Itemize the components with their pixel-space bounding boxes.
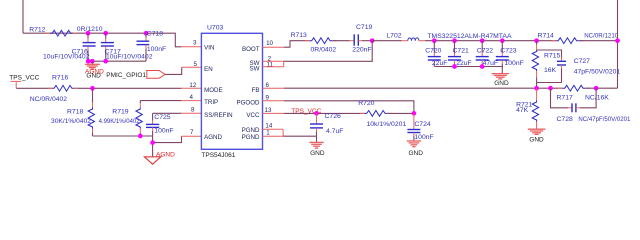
wire: L702 net xyxy=(372,40,401,42)
capacitor C721 xyxy=(454,41,456,53)
svg-text:R713: R713 xyxy=(291,32,307,39)
svg-text:TPS54J061: TPS54J061 xyxy=(201,152,235,159)
svg-text:AGND: AGND xyxy=(156,151,175,158)
svg-text:GND: GND xyxy=(494,80,509,87)
node: SW/boot junction xyxy=(370,38,375,43)
wire: output cap ground rail xyxy=(434,66,502,68)
svg-text:GND: GND xyxy=(529,136,544,143)
svg-text:47K: 47K xyxy=(516,107,529,114)
capacitor C723 xyxy=(501,41,503,53)
pin stub EN pin 5 xyxy=(182,66,202,68)
wire: R714 to output sense column xyxy=(579,40,618,42)
svg-text:R712: R712 xyxy=(29,27,45,34)
node: VIN rail junction C717 xyxy=(103,31,108,36)
svg-text:3: 3 xyxy=(193,40,197,47)
pin stub MODE pin 12 xyxy=(181,87,201,89)
svg-text:SS/REFIN: SS/REFIN xyxy=(204,112,233,119)
svg-text:R715: R715 xyxy=(544,52,560,59)
pin stub FB pin 6 xyxy=(263,87,284,89)
svg-text:10k/1%/0201: 10k/1%/0201 xyxy=(367,121,407,128)
svg-text:10uF/10V/0402: 10uF/10V/0402 xyxy=(43,54,90,61)
svg-text:GND: GND xyxy=(310,150,325,157)
node: MODE net / R718 junction xyxy=(90,86,95,91)
wire: VOUT rail xyxy=(425,40,556,42)
node: gnd rail at C717 xyxy=(103,59,108,64)
node: VOUT rail C723 xyxy=(500,38,505,43)
svg-text:NC/0R/1210: NC/0R/1210 xyxy=(584,33,618,40)
pin stub PGND pin 14 xyxy=(263,128,284,130)
svg-text:R720: R720 xyxy=(358,100,374,107)
node: gnd rail at AGND drop xyxy=(90,59,95,64)
svg-text:100nF: 100nF xyxy=(414,134,433,141)
pin stub BOOT pin 10 xyxy=(263,46,284,48)
svg-text:C720: C720 xyxy=(425,47,441,54)
node: PGOOD/R720/C724 xyxy=(412,111,417,116)
svg-text:C724: C724 xyxy=(414,121,430,128)
svg-text:EN: EN xyxy=(204,66,213,73)
svg-text:0R/0402: 0R/0402 xyxy=(311,47,337,54)
wire: C719 to SW node xyxy=(362,40,372,42)
capacitor C718 xyxy=(145,33,147,37)
wire: TPS_VCC to MODE pin 12 xyxy=(16,87,52,89)
svg-text:BOOT: BOOT xyxy=(242,46,260,53)
svg-text:GND: GND xyxy=(86,73,101,80)
node: VOUT rail R715 xyxy=(534,38,539,43)
svg-text:220nF: 220nF xyxy=(352,47,371,54)
pin stub TRIP pin 4 xyxy=(181,100,201,102)
svg-text:TPS_VCC: TPS_VCC xyxy=(9,74,39,81)
svg-text:R714: R714 xyxy=(538,33,554,40)
svg-text:FB: FB xyxy=(252,87,260,94)
capacitor C717 xyxy=(105,33,107,38)
svg-text:C726: C726 xyxy=(325,113,341,120)
svg-text:C718: C718 xyxy=(147,30,163,37)
svg-text:R716: R716 xyxy=(52,75,68,82)
wire: VCC net xyxy=(284,112,365,114)
svg-text:VIN: VIN xyxy=(204,45,214,52)
resistor R718 xyxy=(92,88,94,102)
svg-text:8: 8 xyxy=(191,106,195,113)
capacitor C722 xyxy=(481,41,483,53)
node: gnd rail C722 xyxy=(480,64,485,69)
node: VCC at C726 xyxy=(314,111,319,116)
capacitor C726 xyxy=(316,113,318,124)
wire: SW pins join xyxy=(283,61,285,67)
node: FB at C728 branch xyxy=(548,86,553,91)
svg-text:10: 10 xyxy=(266,40,273,47)
wire: R715/C727 bottom join xyxy=(537,83,562,89)
wire: R720 to PGOOD node xyxy=(387,112,414,114)
node: VIN rail junction C718 xyxy=(144,31,149,36)
node: gnd rail at C716 xyxy=(86,59,91,64)
svg-text:SW: SW xyxy=(250,66,260,73)
svg-text:7: 7 xyxy=(190,129,194,136)
wire: SW net run xyxy=(284,41,373,62)
wire: PGND pins join xyxy=(282,129,284,136)
svg-text:47pF/50V/0201: 47pF/50V/0201 xyxy=(574,69,621,76)
wire: R713 to C719 xyxy=(332,40,349,42)
svg-text:PGOOD: PGOOD xyxy=(236,99,260,106)
svg-text:L702: L702 xyxy=(386,33,401,40)
svg-text:4.99K/1%/0402: 4.99K/1%/0402 xyxy=(99,118,140,125)
resistor R717 xyxy=(563,85,586,91)
resistor R721 xyxy=(536,88,538,100)
svg-text:4.7uF: 4.7uF xyxy=(326,128,343,135)
svg-text:GND: GND xyxy=(409,150,424,157)
svg-text:NC/16K: NC/16K xyxy=(585,95,609,102)
svg-text:14: 14 xyxy=(265,123,272,130)
capacitor C716 xyxy=(87,33,89,38)
node: FB at right vertical xyxy=(594,86,599,91)
svg-text:5: 5 xyxy=(194,61,198,68)
node: AGND net at C725 column xyxy=(150,140,155,145)
node: VOUT rail C720 xyxy=(432,38,437,43)
pin stub AGND pin 7 xyxy=(182,135,202,137)
pin stub PGND pin 1 xyxy=(263,135,284,137)
pin stub VCC pin 13 xyxy=(263,112,284,114)
svg-text:TMS322512ALM-R47MTAA: TMS322512ALM-R47MTAA xyxy=(427,33,512,40)
node: VOUT rail C722 xyxy=(480,38,485,43)
node: gnd rail C721 xyxy=(452,64,457,69)
capacitor C720 xyxy=(433,41,435,53)
pin stub VIN pin 3 xyxy=(181,46,201,48)
svg-text:U703: U703 xyxy=(207,25,223,32)
node: bottom rail R719 xyxy=(138,134,143,139)
resistor R712 xyxy=(50,30,73,36)
ground GND (output caps) xyxy=(501,67,503,74)
pin stub SW pin 11 xyxy=(263,66,284,68)
pin stub SW pin 2 xyxy=(263,60,284,62)
svg-text:R717: R717 xyxy=(557,95,573,102)
svg-text:C721: C721 xyxy=(453,47,469,54)
resistor R714 xyxy=(556,38,579,44)
wire: EN pin 5 net xyxy=(165,67,182,74)
pin stub SS/REFIN pin 8 xyxy=(181,112,201,114)
capacitor C724 xyxy=(413,113,415,129)
svg-text:C725: C725 xyxy=(154,114,170,121)
svg-text:C727: C727 xyxy=(574,58,590,65)
svg-text:100nF: 100nF xyxy=(505,60,524,67)
wire: PGOOD net xyxy=(284,101,414,114)
ground GND (C726/PGND) xyxy=(309,141,323,143)
svg-text:R718: R718 xyxy=(67,109,83,116)
svg-text:100nF: 100nF xyxy=(154,128,173,135)
pin stub PGOOD pin 9 xyxy=(263,100,284,102)
wire: BOOT net xyxy=(284,41,310,48)
resistor R716 xyxy=(53,85,74,91)
inductor L702 xyxy=(402,40,408,42)
node: VOUT rail C721 xyxy=(452,38,457,43)
svg-text:16K: 16K xyxy=(544,67,557,74)
op-amp U703 (IC TPS54J061 box) xyxy=(201,33,262,149)
resistor R715 xyxy=(536,41,538,45)
svg-text:C723: C723 xyxy=(500,47,516,54)
svg-text:PMIC_GPIO1: PMIC_GPIO1 xyxy=(106,72,146,79)
capacitor C719 xyxy=(350,40,355,42)
svg-text:12: 12 xyxy=(189,82,196,89)
wire: AGND pin 7 net xyxy=(153,136,182,142)
wire: FB net xyxy=(284,87,563,89)
svg-text:4: 4 xyxy=(190,94,194,101)
wire: vertical off-page output xyxy=(617,0,619,88)
svg-text:C719: C719 xyxy=(356,24,372,31)
svg-text:MODE: MODE xyxy=(204,87,223,94)
svg-text:NC/47pF/50V/0201: NC/47pF/50V/0201 xyxy=(578,116,630,123)
wire: top-left VIN feed vertical xyxy=(22,0,24,33)
ground AGND (triangle) xyxy=(144,157,160,164)
wire: PGND to C726 gnd xyxy=(283,135,316,137)
resistor R713 xyxy=(310,38,333,44)
capacitor C725 xyxy=(152,113,154,121)
svg-text:TRIP: TRIP xyxy=(204,99,218,106)
svg-text:NC/0R/0402: NC/0R/0402 xyxy=(30,96,68,103)
node: output column junction xyxy=(615,38,620,43)
wire: input cap ground rail xyxy=(88,60,146,62)
wire: SS/REFIN pin 8 net xyxy=(153,112,182,114)
resistor R719 xyxy=(139,101,141,103)
wire: divider bottom rail xyxy=(93,135,153,137)
node: VIN rail junction C716 xyxy=(86,31,91,36)
svg-text:PGND: PGND xyxy=(242,134,260,141)
wire: TRIP pin 4 net xyxy=(140,100,181,102)
ground GND (R721) xyxy=(528,128,546,130)
wire: R717 to output column xyxy=(585,87,617,89)
ground AGND/GND (input caps) xyxy=(91,61,93,64)
ground GND (C724) xyxy=(407,140,421,142)
svg-text:C722: C722 xyxy=(477,47,493,54)
resistor R720 xyxy=(365,111,388,117)
svg-text:1: 1 xyxy=(266,130,270,137)
svg-text:R719: R719 xyxy=(112,109,128,116)
svg-text:AGND: AGND xyxy=(204,134,222,141)
capacitor C727 xyxy=(561,58,563,62)
svg-text:C728: C728 xyxy=(557,116,573,123)
svg-text:VCC: VCC xyxy=(246,112,260,119)
node: FB at R715 column xyxy=(534,86,539,91)
capacitor C728 xyxy=(551,88,569,108)
svg-text:100nF: 100nF xyxy=(147,46,166,53)
wire: VIN rail to IC pin 3 xyxy=(23,33,181,47)
svg-text:30K/1%/0402: 30K/1%/0402 xyxy=(51,118,91,125)
